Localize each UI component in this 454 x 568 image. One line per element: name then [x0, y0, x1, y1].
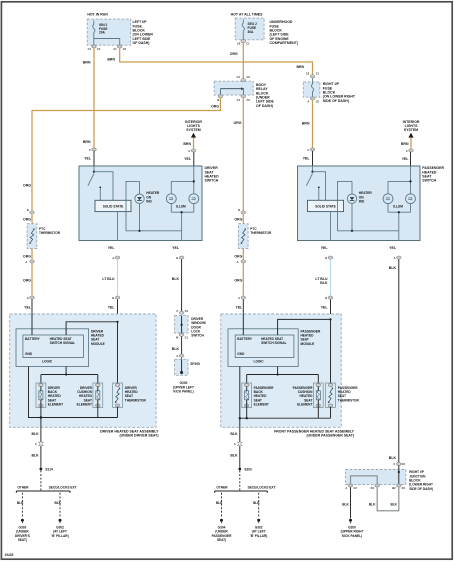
svg-text:BLK: BLK: [31, 432, 39, 436]
wire BLK junction to G200 ground: [350, 487, 352, 518]
svg-text:BLK: BLK: [54, 501, 61, 505]
node lamp rail junction: [409, 180, 411, 182]
passenger back heated seat element: [242, 383, 252, 418]
fuse IGN 2 20A: [93, 21, 108, 46]
wire solid state output to exit: [117, 212, 119, 241]
svg-text:C1: C1: [88, 47, 92, 51]
connector A illum return: [394, 256, 401, 260]
connector B driver PTC top: [27, 208, 34, 214]
svg-text:YEL: YEL: [389, 246, 397, 250]
switch blade (driver): [88, 173, 101, 200]
connector C4 at fuse block right output: [113, 45, 126, 51]
wire LT BLU passenger signal: [330, 259, 332, 296]
wire rail to back element: [40, 375, 42, 385]
wire BLK to window lock switch: [181, 259, 183, 314]
wire BLK to splice: [181, 337, 183, 359]
svg-text:C1: C1: [237, 98, 241, 102]
svg-text:BRN: BRN: [83, 140, 91, 144]
svg-text:ORG: ORG: [211, 105, 219, 109]
svg-text:BRN: BRN: [401, 142, 409, 146]
label driver heated seat thermistor: [125, 386, 147, 402]
wire lamp top rail (driver): [171, 180, 194, 182]
svg-text:ORG: ORG: [234, 218, 242, 222]
svg-text:19433: 19433: [5, 553, 14, 557]
node signal junction: [116, 321, 118, 323]
label driver cushion element: [77, 386, 93, 407]
svg-text:C4: C4: [123, 47, 127, 51]
svg-text:ORG: ORG: [23, 218, 31, 222]
wire dashed branch to G302: [258, 493, 260, 517]
svg-text:YEL: YEL: [321, 246, 329, 250]
lamp illumination (passenger left): [383, 181, 393, 212]
svg-text:C4: C4: [97, 47, 101, 51]
svg-text:SOLID STATE: SOLID STATE: [103, 204, 124, 208]
svg-text:SECU/LOCKS EXT: SECU/LOCKS EXT: [248, 486, 276, 490]
lamp illumination (driver left): [166, 181, 176, 212]
svg-text:THERMISTOR: THERMISTOR: [250, 231, 272, 235]
fuse SEO 2 30A: [242, 19, 257, 39]
svg-text:SWITCH: SWITCH: [422, 179, 436, 183]
svg-text:SIDE OF DASH): SIDE OF DASH): [323, 99, 349, 103]
label HEATER ON IND: [146, 191, 160, 203]
label right I/P junction block: [409, 470, 433, 491]
svg-text:BATTERY: BATTERY: [25, 337, 41, 341]
label passenger cushion element: [293, 386, 313, 407]
wire driver switch feed stub: [93, 166, 95, 172]
svg-text:YEL: YEL: [303, 156, 311, 160]
fuse in right I/P block: [311, 78, 313, 97]
connector C splice top: [176, 354, 183, 358]
svg-text:OF DASH): OF DASH): [133, 41, 150, 45]
svg-text:BLK: BLK: [389, 266, 397, 270]
ground G200 upper left kick panel: [173, 381, 194, 393]
node interior lights system (driver): [185, 120, 202, 137]
wire battery input: [31, 314, 33, 335]
wire ground exit: [40, 418, 42, 443]
passenger cushion heated seat element: [313, 383, 323, 418]
svg-text:OTHER: OTHER: [17, 486, 29, 490]
node entry junction: [398, 471, 400, 473]
right I/P junction block box: [346, 470, 406, 485]
ground G302: [250, 519, 267, 538]
svg-text:BATTERY: BATTERY: [237, 337, 253, 341]
ground G302: [51, 519, 68, 538]
svg-text:YEL: YEL: [321, 305, 329, 309]
svg-text:BRN: BRN: [83, 61, 91, 65]
svg-text:C2: C2: [316, 99, 320, 103]
wire YEL into passenger switch illum: [410, 152, 412, 166]
wire BLK passenger illum return to junction block: [398, 259, 400, 462]
relay internal bus with arrow: [220, 87, 244, 95]
connector B: [112, 296, 119, 300]
svg-text:B: B: [238, 208, 240, 212]
svg-text:BLK: BLK: [216, 501, 223, 505]
lamp illumination (passenger right): [406, 194, 416, 212]
svg-text:20A: 20A: [99, 31, 106, 35]
node mid tap: [181, 211, 183, 213]
wire module GND to ground rail: [29, 367, 118, 418]
lamp illumination (driver right): [189, 194, 199, 212]
node ground rail junction: [239, 417, 241, 419]
wire solid state output to exit: [330, 212, 332, 241]
svg-text:C: C: [234, 442, 236, 446]
connector M C1 window lock bottom: [176, 333, 188, 339]
wire ground distribution bar (driver): [16, 491, 70, 493]
connector C C3 window lock top: [176, 309, 188, 315]
svg-text:GND: GND: [237, 352, 245, 356]
svg-text:B2: B2: [392, 486, 396, 490]
connector C1 at fuse block left output: [88, 45, 101, 51]
svg-text:KICK PANEL): KICK PANEL): [342, 534, 362, 538]
wire ORG stub: [242, 214, 244, 224]
svg-text:C6: C6: [237, 41, 241, 45]
svg-text:SWITCH SIGNAL: SWITCH SIGNAL: [50, 341, 76, 345]
label PTC thermistor: [250, 227, 272, 235]
svg-text:YEL: YEL: [108, 246, 116, 250]
wire BLK U-loop: [377, 487, 399, 511]
node lamp rail junction: [193, 180, 195, 182]
wire battery input: [242, 314, 244, 335]
svg-text:SOLID STATE: SOLID STATE: [315, 204, 336, 208]
driver heated seat module box: [16, 329, 89, 367]
svg-text:YEL: YEL: [402, 157, 410, 161]
ground G200 upper right kick panel: [341, 519, 364, 538]
label passenger heated seat module: [301, 329, 321, 345]
wire BRN left fuse to driver switch connector: [93, 48, 95, 148]
svg-text:YEL: YEL: [172, 246, 180, 250]
svg-text:ORG: ORG: [23, 254, 31, 258]
svg-text:(UNDER PASSENGER SEAT): (UNDER PASSENGER SEAT): [306, 433, 354, 437]
svg-text:SYSTEM: SYSTEM: [186, 128, 200, 132]
svg-text:S303: S303: [244, 468, 252, 472]
driver heated seat switch box: [79, 166, 202, 241]
label passenger assembly: [274, 429, 355, 437]
svg-text:YEL: YEL: [84, 156, 92, 160]
wire lamp mid tap to illum return: [398, 212, 400, 240]
svg-text:SYSTEM: SYSTEM: [404, 128, 418, 132]
label driver switch: [205, 166, 220, 182]
node back element ground junction: [40, 416, 42, 418]
svg-text:IND: IND: [146, 200, 152, 204]
pin HEATED SEAT SWITCH SIGNAL: [50, 337, 76, 345]
connector A right fuse bottom: [307, 97, 319, 104]
wire ORG relay to left PTC column: [32, 98, 220, 211]
svg-text:OF DASH): OF DASH): [256, 104, 273, 108]
label driver heated seat module: [91, 329, 105, 345]
wire passenger switch feed stub: [312, 166, 314, 172]
LED heater on indicator (passenger): [347, 181, 356, 230]
wire YEL into driver switch: [93, 151, 95, 166]
connector A lower: [238, 296, 245, 300]
connector C passenger feed: [307, 148, 314, 152]
svg-text:C: C: [307, 148, 309, 152]
wire fuse internal branch: [94, 39, 120, 46]
svg-text:OTHER: OTHER: [216, 486, 228, 490]
passenger heated seat switch box: [298, 166, 421, 241]
svg-text:ORG: ORG: [230, 52, 238, 56]
svg-text:BLK: BLK: [389, 456, 397, 460]
svg-text:BRN: BRN: [183, 142, 191, 146]
connector C inline (driver): [35, 442, 43, 446]
wire LED loop (driver): [126, 181, 182, 230]
svg-text:YEL: YEL: [235, 305, 243, 309]
svg-text:A: A: [112, 256, 114, 260]
label underhood fuse block: [270, 20, 299, 45]
svg-text:(UNDER DRIVER SEAT): (UNDER DRIVER SEAT): [119, 433, 158, 437]
wire BLK to splice S314: [40, 446, 42, 470]
svg-text:C1: C1: [246, 41, 250, 45]
wire dashed branch to G303: [21, 493, 23, 517]
svg-text:ORG: ORG: [234, 254, 242, 258]
module logic inner box: [23, 335, 84, 358]
wire illum entry down to lamps: [410, 166, 412, 194]
connector B: [325, 296, 332, 300]
connector B passenger PTC top: [238, 208, 245, 214]
left I/P fuse block box: [87, 19, 131, 45]
svg-text:BLK: BLK: [320, 281, 328, 285]
label driver window/door lock switch: [191, 317, 206, 338]
svg-text:MODULE: MODULE: [301, 342, 315, 346]
node splice S303: [238, 468, 251, 472]
svg-text:BLK: BLK: [172, 347, 180, 351]
node splice S314: [40, 468, 53, 472]
svg-text:30A: 30A: [248, 30, 255, 34]
wire element feed rail: [247, 374, 319, 376]
svg-text:COMPARTMENT): COMPARTMENT): [270, 41, 299, 45]
wire BRN left fuse to right I/P fuse block: [120, 48, 313, 75]
svg-text:THERMISTOR: THERMISTOR: [125, 398, 147, 402]
label HEATER ON IND: [359, 191, 373, 203]
connector A: [112, 256, 119, 260]
body relay block box: [214, 81, 253, 95]
wire into passenger assembly: [330, 299, 332, 319]
wire dashed continuation to ground bar: [239, 470, 241, 491]
svg-text:C: C: [393, 462, 395, 466]
wire YEL into passenger switch: [312, 151, 314, 166]
svg-text:SEAT): SEAT): [18, 538, 27, 542]
connector B2 D1 junction bottom right: [392, 484, 405, 490]
connector C inline (passenger): [234, 442, 242, 446]
connector A lower: [27, 296, 34, 300]
svg-text:SEAT): SEAT): [217, 538, 226, 542]
connector C3 right fuse top: [306, 72, 320, 78]
solid state module U (driver): [95, 200, 131, 211]
driver heated seat assembly dashed box: [10, 314, 156, 427]
wire BLK entry through junction block: [398, 466, 400, 485]
wire signal to seat thermistor: [117, 322, 119, 384]
svg-text:ILLUM: ILLUM: [393, 205, 403, 209]
wire BRN to interior lights (passenger): [410, 137, 412, 148]
svg-text:BLK: BLK: [230, 454, 238, 458]
label driver assembly: [100, 429, 159, 437]
connector A C2 junction bottom left: [345, 484, 357, 490]
svg-text:C1: C1: [316, 72, 320, 76]
node LED bottom junction: [351, 230, 353, 232]
connector B illum return: [176, 256, 183, 260]
solid state module U (passenger): [308, 200, 344, 211]
svg-text:A: A: [25, 260, 27, 264]
wire signal to seat thermistor: [330, 319, 332, 384]
wire ORG to assembly connector: [31, 249, 33, 297]
passenger heated seat thermistor: [326, 383, 336, 418]
node mid tap: [398, 211, 400, 213]
wire module GND to ground rail: [240, 367, 331, 419]
label passenger back element: [254, 386, 274, 407]
wire junction block internal bus: [351, 476, 378, 485]
wire signal to module: [66, 322, 117, 335]
svg-text:A: A: [238, 296, 240, 300]
splice SP205 box: [175, 359, 188, 375]
svg-text:HOT IN RUN: HOT IN RUN: [87, 13, 108, 17]
wire ORG relay to middle PTC column: [242, 98, 244, 211]
wire rail to back element: [246, 375, 248, 385]
wire LT BLU driver signal: [117, 259, 119, 296]
wire dashed continuation to ground bar: [40, 470, 42, 491]
connector C (passenger illum): [406, 149, 413, 153]
svg-text:C3: C3: [306, 72, 310, 76]
svg-text:SWITCH SIGNAL: SWITCH SIGNAL: [261, 341, 287, 345]
svg-text:ELEMENT: ELEMENT: [254, 403, 269, 407]
PTC thermistor circuit breaker (passenger): [238, 224, 248, 249]
svg-text:A: A: [237, 260, 239, 264]
svg-text:A: A: [307, 99, 309, 103]
svg-text:B: B: [217, 98, 219, 102]
svg-text:THERMISTOR: THERMISTOR: [338, 398, 360, 402]
svg-text:BLK: BLK: [342, 503, 349, 507]
svg-text:SECU/LOCKS EXT: SECU/LOCKS EXT: [49, 486, 77, 490]
svg-text:C1: C1: [185, 336, 189, 340]
wire into driver assembly: [117, 299, 119, 322]
wire element feed rail: [41, 374, 98, 376]
svg-text:C3: C3: [185, 309, 189, 313]
svg-text:B: B: [27, 208, 29, 212]
svg-text:S314: S314: [45, 468, 53, 472]
wire into passenger assembly battery: [242, 299, 244, 335]
svg-text:MODULE: MODULE: [91, 342, 105, 346]
svg-text:ELEMENT: ELEMENT: [297, 403, 312, 407]
svg-text:BRN: BRN: [107, 58, 115, 62]
svg-text:BLK: BLK: [17, 501, 24, 505]
wire lamp bottom rail: [171, 211, 194, 213]
svg-text:C1: C1: [113, 47, 117, 51]
connector B: [325, 256, 332, 260]
svg-text:BLK: BLK: [369, 503, 376, 507]
svg-text:IND: IND: [359, 200, 365, 204]
svg-text:SIDE OF DASH): SIDE OF DASH): [409, 487, 433, 491]
svg-text:C2: C2: [354, 486, 358, 490]
wire rail to cushion element: [317, 375, 319, 385]
wire dashed branch to G304: [221, 493, 223, 517]
connector C6 underhood fuse output: [237, 40, 250, 46]
wire illum entry down to lamps: [193, 166, 195, 194]
svg-text:A: A: [27, 296, 29, 300]
node interior lights system (passenger): [403, 120, 420, 137]
svg-text:THERMISTOR: THERMISTOR: [39, 231, 61, 235]
svg-text:BLK: BLK: [172, 277, 180, 281]
label passenger heated seat thermistor: [338, 386, 360, 402]
svg-text:LOGIC: LOGIC: [42, 360, 53, 364]
svg-text:B: B: [176, 256, 178, 260]
wire into driver assembly battery: [31, 299, 33, 335]
passenger heated seat assembly dashed box: [221, 314, 341, 427]
svg-text:C: C: [188, 149, 190, 153]
connector C1 C2 relay top: [237, 75, 251, 82]
driver window/door lock switch box: [175, 316, 188, 333]
svg-text:C: C: [176, 354, 178, 358]
wire ORG fuse to relay block: [242, 43, 244, 79]
node switch junction: [93, 171, 95, 173]
svg-text:KICK PANEL): KICK PANEL): [173, 390, 193, 394]
svg-text:HOT AT ALL TIMES: HOT AT ALL TIMES: [231, 13, 264, 17]
svg-text:'B' PILLAR): 'B' PILLAR): [51, 534, 68, 538]
svg-text:D1: D1: [402, 486, 406, 490]
wire BRN to interior lights (driver): [193, 137, 195, 148]
wire BLK to splice S303: [239, 446, 241, 470]
ground G303: [15, 519, 30, 542]
svg-text:D1: D1: [371, 486, 375, 490]
connector A: [25, 260, 34, 264]
svg-text:ELEMENT: ELEMENT: [77, 403, 92, 407]
driver heated seat thermistor: [113, 383, 123, 418]
label LT BLU: [315, 277, 328, 285]
svg-text:YEL: YEL: [108, 305, 116, 309]
wire ground exit: [239, 418, 241, 442]
svg-text:C: C: [35, 442, 37, 446]
svg-text:C2: C2: [402, 462, 406, 466]
connector A: [237, 260, 246, 264]
svg-text:'B' PILLAR): 'B' PILLAR): [250, 534, 267, 538]
svg-text:BLK: BLK: [230, 432, 238, 436]
node back element ground junction: [246, 417, 248, 419]
svg-text:C: C: [406, 149, 408, 153]
wire ground distribution bar (passenger): [215, 491, 268, 493]
svg-text:YEL: YEL: [24, 305, 32, 309]
pin HEATED SEAT SWITCH SIGNAL: [261, 337, 287, 345]
connector C1 C2 relay bottom right: [237, 95, 251, 102]
wire YEL into driver switch illum: [193, 152, 195, 166]
svg-text:GND: GND: [25, 352, 33, 356]
wire signal to module: [278, 319, 331, 335]
wire junction to solid state input: [313, 172, 326, 201]
wire rail to cushion element: [97, 375, 99, 385]
svg-text:ORG: ORG: [234, 279, 242, 283]
label passenger switch: [422, 166, 444, 182]
svg-text:B: B: [112, 296, 114, 300]
wire LED loop (passenger): [338, 181, 399, 230]
node element rail junction: [65, 373, 67, 375]
svg-text:BRN: BRN: [302, 122, 310, 126]
ground G304: [212, 519, 232, 542]
node element rail junction: [277, 373, 279, 375]
svg-text:ILLUM: ILLUM: [176, 205, 186, 209]
switch blade (passenger): [306, 173, 319, 200]
node signal junction: [329, 318, 331, 320]
svg-text:BRN: BRN: [297, 65, 305, 69]
connector C (driver illum): [188, 149, 195, 153]
svg-text:A: A: [345, 486, 347, 490]
label driver back element: [48, 386, 63, 407]
svg-text:C2: C2: [247, 98, 251, 102]
svg-text:ELEMENT: ELEMENT: [48, 403, 63, 407]
label right I/P fuse block: [323, 82, 356, 103]
module logic inner box: [235, 335, 294, 358]
wire lamp mid tap to illum return: [181, 212, 183, 240]
svg-text:SP205: SP205: [190, 362, 200, 366]
wire ORG stub: [31, 214, 33, 224]
svg-text:C1: C1: [237, 75, 241, 79]
svg-text:ORG: ORG: [23, 279, 31, 283]
connector C C2 junction block top: [393, 462, 405, 466]
